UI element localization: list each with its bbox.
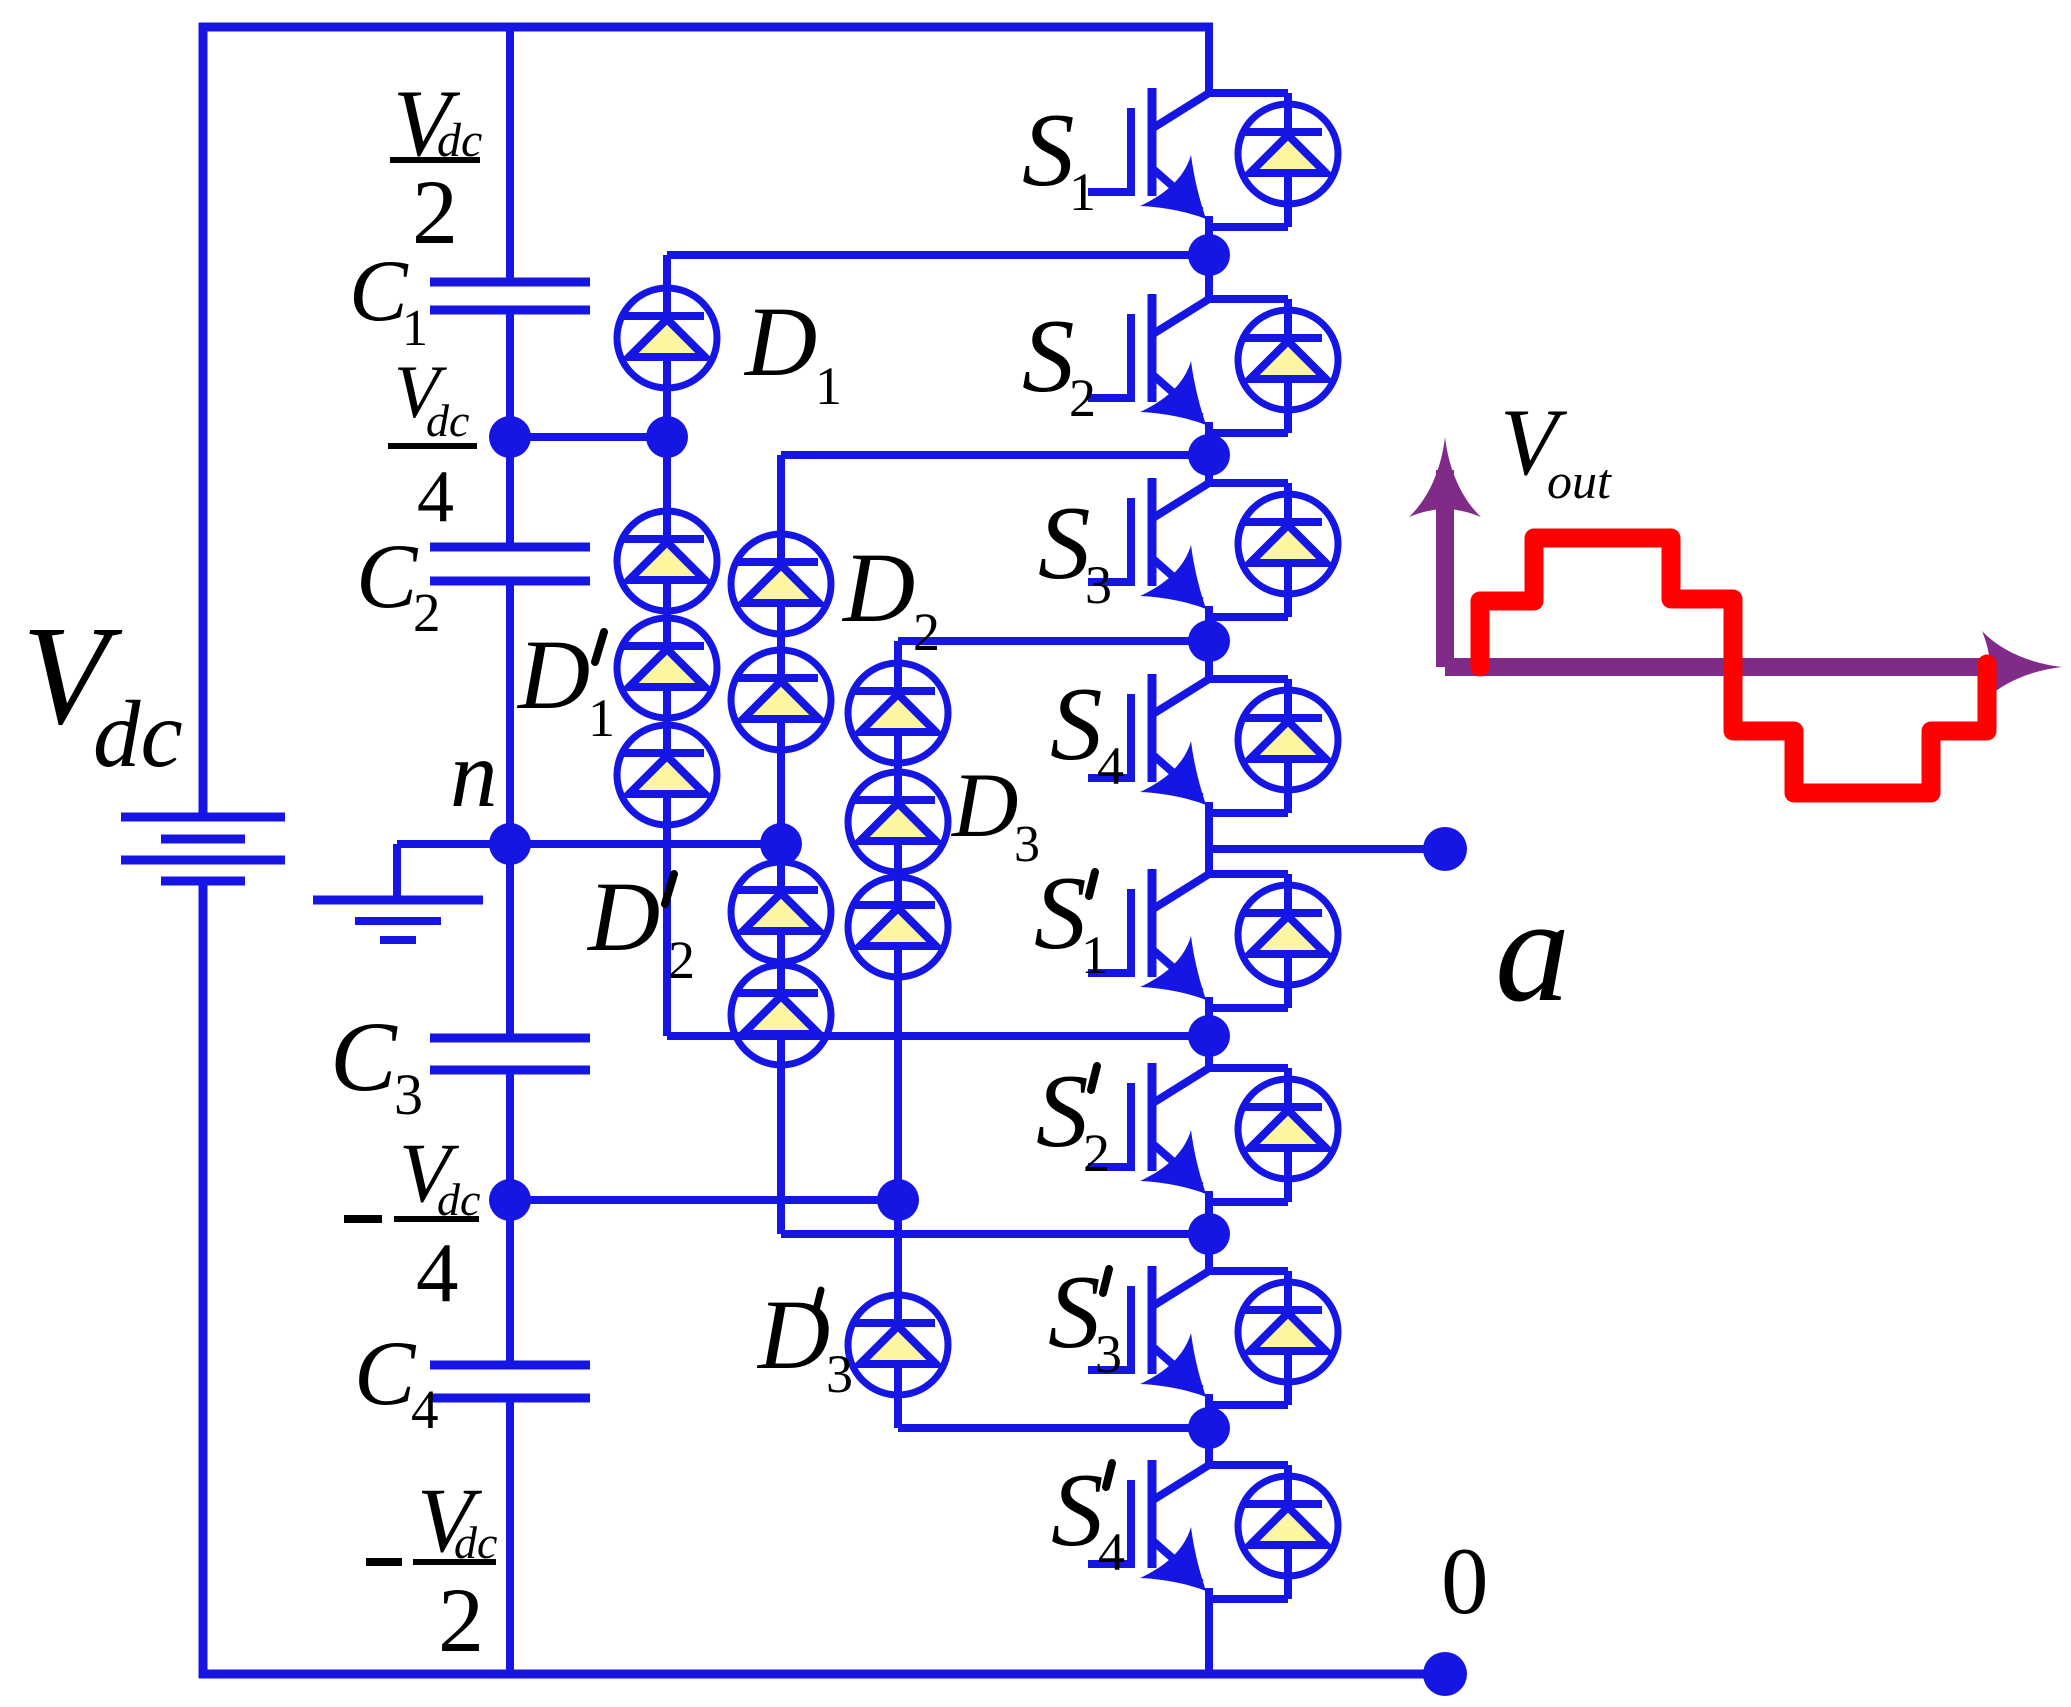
diode D2p b [731, 965, 831, 1065]
transistor S1' [1088, 869, 1338, 1008]
diode D1p b [617, 618, 717, 718]
svg-text:4: 4 [1098, 1522, 1125, 1582]
diode D1p c [617, 725, 717, 825]
wire D1 column [663, 255, 671, 1036]
node Vdc/4 on cap bus [489, 416, 531, 458]
svg-text:n: n [450, 721, 498, 827]
diode D2 b [731, 650, 831, 750]
terminal a [1423, 827, 1467, 871]
svg-text:4: 4 [416, 1226, 459, 1320]
Vout axis horizontal [1445, 658, 1990, 676]
transistor S1 [1088, 88, 1338, 227]
svg-text:0: 0 [1441, 1528, 1489, 1634]
transistor S3' [1088, 1266, 1338, 1405]
svg-text:dc: dc [454, 1517, 497, 1568]
transistor S4 [1088, 674, 1338, 813]
wire bus S3p-S4p [1205, 1394, 1213, 1465]
wire bus S4p-bottom [1205, 1588, 1213, 1674]
diode D1 [617, 288, 717, 388]
svg-text:C: C [330, 1001, 398, 1112]
svg-text:D: D [516, 619, 590, 730]
node -Vdc/4 on cap bus [489, 1179, 531, 1221]
diode D2 a [731, 534, 831, 634]
svg-text:4: 4 [417, 456, 454, 538]
capacitor C3 [430, 1038, 590, 1070]
junction S3-S4 [1188, 620, 1230, 662]
svg-text:2: 2 [668, 930, 695, 990]
node Vdc/4 on D1 column [646, 416, 688, 458]
svg-text:S: S [1022, 297, 1075, 414]
node n [489, 823, 531, 865]
svg-text:dc: dc [437, 1174, 480, 1225]
svg-text:2: 2 [913, 602, 940, 662]
wire left bus lower [199, 881, 208, 1678]
diode D1p a [617, 511, 717, 611]
ground [313, 900, 483, 940]
wire Vdc/4 link [510, 433, 667, 441]
svg-text:3: 3 [1095, 1324, 1122, 1384]
svg-text:S: S [1051, 1451, 1104, 1568]
junction S2-S3 [1188, 434, 1230, 476]
wire node n link [397, 840, 781, 848]
wire left bus upper [199, 23, 208, 817]
wire ground stub [393, 844, 401, 900]
svg-text:D: D [743, 286, 817, 397]
svg-text:2: 2 [1083, 1123, 1110, 1183]
svg-text:1: 1 [588, 688, 615, 748]
svg-text:1: 1 [815, 356, 842, 416]
wire bus S1p-S2p [1205, 997, 1213, 1068]
wire bus top-S1 [1205, 27, 1213, 93]
waveform Vout staircase [1480, 538, 1987, 793]
svg-text:D: D [841, 532, 915, 643]
node n on D2 column [760, 823, 802, 865]
wire bus S3-S4 [1205, 606, 1213, 679]
wire D1 to S1S2 [667, 251, 1209, 259]
wire D2p to S2pS3p [781, 1230, 1209, 1238]
svg-text:1: 1 [1069, 162, 1096, 222]
transistor S4' [1088, 1460, 1338, 1599]
wire -Vdc/4 link [510, 1196, 898, 1204]
node -Vdc/4 on D3 column [877, 1179, 919, 1221]
svg-text:C: C [349, 243, 409, 340]
svg-text:S: S [1036, 1052, 1089, 1169]
svg-text:3: 3 [826, 1344, 853, 1404]
diode D3 a [848, 663, 948, 763]
wire bus S2-S3 [1205, 422, 1213, 483]
wire D3p to S3pS4p [898, 1424, 1209, 1432]
svg-text:4: 4 [411, 1379, 439, 1440]
wire cap bus seg3 [506, 581, 514, 1038]
transistor S2 [1088, 294, 1338, 433]
label Vdc/4 [388, 443, 477, 449]
junction S2p-S3p [1188, 1213, 1230, 1255]
svg-text:1: 1 [402, 300, 428, 357]
Vout axis vertical [1436, 470, 1454, 667]
wire D2 column [777, 455, 785, 1234]
svg-text:3: 3 [1085, 555, 1112, 615]
svg-text:D: D [950, 754, 1018, 856]
capacitor C1 [430, 282, 590, 310]
label -Vdc/4 [344, 1215, 382, 1223]
wire cap bus seg5 [506, 1398, 514, 1674]
svg-text:out: out [1547, 453, 1612, 509]
battery Vdc [121, 817, 285, 881]
svg-text:1: 1 [1081, 925, 1108, 985]
terminal 0 [1423, 1652, 1467, 1696]
wire bottom bus [199, 1670, 1445, 1679]
diode D3p [848, 1295, 948, 1395]
svg-text:2: 2 [438, 1569, 484, 1671]
wire D3 to S3S4 [898, 637, 1209, 645]
svg-text:S: S [1022, 91, 1075, 208]
label Vdc/2 [390, 157, 480, 163]
wire bus S1-S2 [1205, 216, 1213, 299]
svg-text:dc: dc [426, 395, 469, 446]
transistor S2' [1088, 1063, 1338, 1202]
label -Vdc/2 [366, 1558, 402, 1566]
svg-text:C: C [356, 525, 419, 627]
junction S1p-S2p [1188, 1015, 1230, 1057]
junction S3p-S4p [1188, 1407, 1230, 1449]
svg-text:S: S [1038, 484, 1091, 601]
wire D1p to S1pS2p [667, 1032, 1209, 1040]
capacitor C2 [430, 547, 590, 581]
svg-text:S: S [1034, 854, 1087, 971]
svg-text:a: a [1495, 867, 1570, 1033]
wire cap bus seg2 [506, 310, 514, 547]
wire D2 to S2S3 [781, 451, 1209, 459]
svg-text:2: 2 [412, 161, 458, 263]
diode D3 c [848, 877, 948, 977]
diode D3 b [848, 772, 948, 872]
svg-text:4: 4 [1097, 736, 1124, 796]
svg-text:3: 3 [394, 1062, 423, 1127]
svg-text:dc: dc [437, 114, 482, 167]
wire output a [1209, 845, 1445, 853]
svg-text:2: 2 [1069, 368, 1096, 428]
wire top bus [199, 23, 1213, 32]
diode D2p a [731, 862, 831, 962]
junction S1-S2 [1188, 234, 1230, 276]
wire bus S2p-S3p [1205, 1191, 1213, 1271]
svg-text:D: D [586, 861, 660, 972]
capacitor C4 [430, 1365, 590, 1398]
svg-text:C: C [354, 1322, 417, 1424]
transistor S3 [1088, 478, 1338, 617]
svg-text:S: S [1048, 1253, 1101, 1370]
svg-text:S: S [1050, 665, 1103, 782]
wire cap bus seg1 [506, 27, 514, 282]
wire cap bus seg4 [506, 1070, 514, 1365]
svg-text:2: 2 [413, 582, 441, 643]
svg-text:dc: dc [93, 681, 183, 787]
wire bus S4-S1p [1205, 802, 1213, 874]
wire D3 column [894, 641, 902, 1428]
